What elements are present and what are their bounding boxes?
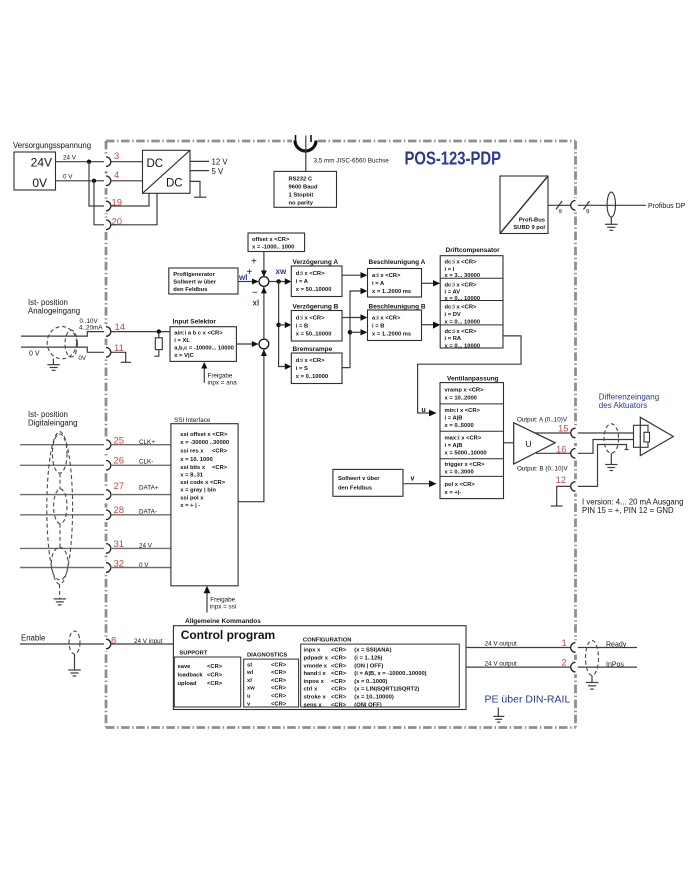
svg-text:12: 12 [556,475,567,486]
RS232 box [274,171,337,207]
svg-text:ain:i a b c x <CR>: ain:i a b c x <CR> [174,330,223,336]
svg-text:(ON | OFF): (ON | OFF) [354,663,383,669]
wire v to pol [403,483,430,485]
svg-text:Control program: Control program [181,628,276,642]
wire BeschA to Driftcompensator [422,282,434,284]
Profi-Bus SUBD box [500,176,548,234]
svg-text:<CR>: <CR> [331,656,347,662]
svg-text:5 V: 5 V [212,167,225,176]
ground analog shield [52,359,54,365]
svg-text:DC: DC [147,158,164,170]
svg-text:stroke x: stroke x [304,695,327,701]
summing node 2 [259,339,269,349]
wire output B to pin 16 [536,452,571,454]
svg-text:Ready: Ready [606,641,627,648]
svg-text:i = DV: i = DV [445,312,461,318]
wire xw out of summing [269,281,286,283]
svg-text:<CR>: <CR> [331,663,347,669]
pair ellipse clk [52,434,67,473]
svg-text:Analogeingang: Analogeingang [28,307,80,316]
svg-text:Bremsrampe: Bremsrampe [293,346,333,353]
enclosure dashed border left [105,141,108,728]
wire ventil out to amp U [504,442,514,444]
svg-text:0V: 0V [32,176,47,190]
svg-text:xl: xl [247,678,252,684]
wire pin14 to input selektor [111,331,171,333]
svg-text:POS-123-PDP: POS-123-PDP [405,148,502,169]
svg-text:x = -1000.. 1000: x = -1000.. 1000 [252,245,294,251]
svg-text:x = 8..31: x = 8..31 [180,472,203,478]
svg-text:x = 0..3000: x = 0..3000 [445,470,474,476]
pair ellipse 24v [51,547,68,580]
svg-text:inpx = ssi: inpx = ssi [210,604,236,611]
svg-text:3,5 mm JISC-6560 Buchse: 3,5 mm JISC-6560 Buchse [314,158,390,165]
svg-text:Output: B (0..10)V: Output: B (0..10)V [517,465,569,472]
ground digital shield [59,584,61,599]
right border connector arcs: profibus, 15,16,12,1,2 [571,201,576,672]
svg-text:24 V output: 24 V output [485,660,517,667]
svg-text:Sollwert w über: Sollwert w über [173,280,217,286]
svg-text:x = 1..2000 ms: x = 1..2000 ms [372,332,411,338]
svg-text:Beschleunigung A: Beschleunigung A [369,259,426,266]
svg-text:xw: xw [247,686,255,692]
svg-text:<CR>: <CR> [271,686,287,692]
svg-text:<CR>: <CR> [271,662,287,668]
wire BeschB to Driftcompensator [422,324,434,326]
svg-text:Allgemeine Kommandos: Allgemeine Kommandos [185,618,261,625]
svg-text:<CR>: <CR> [212,465,228,471]
wire bremsrampe up branch [342,291,361,368]
svg-text:x = 0..10000: x = 0..10000 [296,374,328,380]
svg-text:2: 2 [562,658,567,669]
cable shield ellipse actuator [604,424,619,453]
svg-text:hand:i x: hand:i x [304,671,327,677]
svg-text:19: 19 [112,198,123,209]
svg-text:vramp x <CR>: vramp x <CR> [445,388,485,394]
svg-text:Sollwert v über: Sollwert v über [338,476,380,482]
svg-text:dc:i x <CR>: dc:i x <CR> [445,305,478,311]
svg-text:pol x <CR>: pol x <CR> [445,482,476,488]
wire profibus to border [548,204,571,206]
svg-text:a,b,c = -10000... 10000: a,b,c = -10000... 10000 [174,345,234,351]
wire VerzA to BeschA [342,274,361,276]
wire profibus external [578,204,646,206]
svg-text:12 V: 12 V [212,158,229,167]
svg-text:Freigabe: Freigabe [208,373,233,380]
svg-text:DC: DC [166,178,183,190]
svg-text:(x = 10..10000): (x = 10..10000) [354,695,394,701]
wire VerzB to BeschB [342,317,361,319]
svg-text:i = A|B: i = A|B [445,443,463,449]
svg-text:4..20mA: 4..20mA [79,324,103,331]
svg-text:DIAGNOSTICS: DIAGNOSTICS [247,653,287,659]
external wires ready/inpos [578,647,637,649]
svg-text:9: 9 [559,209,563,216]
svg-text:a:i x <CR>: a:i x <CR> [372,316,401,322]
wire pin11 stub to 0V [111,352,126,362]
svg-text:<CR>: <CR> [331,695,347,701]
svg-text:a:i x <CR>: a:i x <CR> [372,273,401,279]
svg-text:PIN 15 = +, PIN 12 = GND: PIN 15 = +, PIN 12 = GND [582,506,674,515]
wire 24V to pin 3 [56,161,105,163]
svg-text:x = 3... 30000: x = 3... 30000 [445,273,481,279]
svg-text:(ON| OFF): (ON| OFF) [354,702,381,708]
svg-text:i = RA: i = RA [445,336,462,342]
svg-text:16: 16 [556,444,567,455]
svg-text:trigger x <CR>: trigger x <CR> [445,462,486,468]
svg-text:x = 10..2000: x = 10..2000 [445,396,477,402]
svg-text:ssi pol x: ssi pol x [180,495,204,501]
svg-text:<CR>: <CR> [207,673,223,679]
shunt resistor [158,334,160,338]
svg-text:15: 15 [558,424,569,435]
svg-text:0 V: 0 V [29,351,40,358]
svg-text:loadback: loadback [178,673,204,679]
svg-text:<CR>: <CR> [207,681,223,687]
Freigabe ssi arrow [206,590,208,613]
svg-text:Enable: Enable [21,634,45,643]
svg-text:InPos: InPos [606,661,624,668]
svg-text:ctrl x: ctrl x [304,687,319,693]
wire pin8 to control program [111,643,174,645]
svg-text:0 V: 0 V [63,174,73,181]
svg-text:<CR>: <CR> [207,664,223,670]
svg-text:24 V: 24 V [63,155,77,162]
svg-text:i = B: i = B [372,324,384,330]
svg-text:24V: 24V [31,156,52,170]
svg-text:x = V|C: x = V|C [174,353,194,359]
wire pin12 external shield [578,445,627,487]
svg-text:<CR>: <CR> [331,679,347,685]
wire pin15 external [578,432,634,434]
svg-text:x = 50..10000: x = 50..10000 [296,287,332,293]
svg-text:Profilgenerator: Profilgenerator [173,272,215,278]
cable shield ellipse enable [69,631,80,654]
wire selektor to summing 2 [236,343,252,345]
svg-text:ssi code x <CR>: ssi code x <CR> [180,480,225,486]
wire xl vertical into summing 1 [263,287,265,339]
svg-text:U: U [526,439,532,449]
svg-text:+: + [247,267,253,278]
wire ssi up into summing 2 [238,350,264,502]
pair ellipse data [54,489,67,524]
wire 12V out [190,160,209,162]
svg-text:x = 0..5000: x = 0..5000 [445,423,474,429]
wire enable [20,643,104,645]
svg-text:x = -30000 ..30000: x = -30000 ..30000 [180,440,229,446]
wire 0V down to pin 20 [94,181,104,225]
svg-text:CONFIGURATION: CONFIGURATION [303,638,352,644]
wire pin19 to DCDC bottom [111,193,150,206]
svg-text:Digitaleingang: Digitaleingang [28,419,77,428]
svg-text:0V: 0V [78,355,87,362]
ground profibus shield [610,217,612,224]
ground at DCDC [190,181,200,197]
svg-text:ssi res x: ssi res x [180,449,204,455]
svg-text:<CR>: <CR> [271,678,287,684]
svg-text:upload: upload [178,681,197,687]
svg-text:24 V output: 24 V output [485,641,517,648]
svg-text:dc:i x <CR>: dc:i x <CR> [445,260,478,266]
svg-text:inpos x: inpos x [304,679,325,685]
svg-text:Versorgungsspannung: Versorgungsspannung [13,141,91,150]
svg-text:x = 0... 10000: x = 0... 10000 [445,320,481,326]
wire 24V output 2 [466,666,571,668]
wires pins to SSI box [111,444,171,446]
svg-text:min:i x <CR>: min:i x <CR> [445,408,481,414]
svg-text:Output: A (0..10)V: Output: A (0..10)V [517,416,568,423]
border gaps for connectors [104,138,579,674]
svg-text:i = S: i = S [296,366,308,372]
svg-text:d:i x <CR>: d:i x <CR> [296,271,325,277]
actuator amplifier [634,425,649,447]
svg-text:dc:i x <CR>: dc:i x <CR> [445,329,478,335]
svg-text:(i = 1..126): (i = 1..126) [354,656,382,662]
svg-text:i = A: i = A [296,279,309,285]
svg-text:Ist- position: Ist- position [28,410,68,419]
Freigabe ana arrow [203,366,205,383]
wire 5V out [190,170,209,172]
svg-text:den Feldbus: den Feldbus [173,287,207,293]
svg-text:sens x: sens x [304,702,323,708]
svg-text:27: 27 [114,481,125,492]
svg-text:i = AV: i = AV [445,289,461,295]
svg-text:DATA+: DATA+ [139,485,159,492]
svg-text:u: u [422,407,426,414]
node 24V junction [87,160,91,164]
svg-text:PE über DIN-RAIL: PE über DIN-RAIL [485,694,571,706]
svg-text:x = + | -: x = + | - [180,503,200,509]
svg-text:(x = LIN|SQRT1|SQRT2): (x = LIN|SQRT1|SQRT2) [354,687,419,693]
svg-text:max:i x <CR>: max:i x <CR> [445,436,482,442]
wire driftcomp to ventilanpassung [418,336,521,413]
wires digital left [20,444,104,446]
svg-text:ssi bits x: ssi bits x [180,465,206,471]
wire pin4 to DCDC [111,180,143,182]
wire analog - [21,347,104,352]
svg-text:inpx = ana: inpx = ana [208,380,238,387]
svg-text:x = 10. 1000: x = 10. 1000 [180,457,212,463]
svg-text:i = XL: i = XL [174,338,190,344]
svg-text:d:i x <CR>: d:i x <CR> [296,358,325,364]
svg-text:x = 50..10000: x = 50..10000 [296,332,332,338]
svg-text:SUBD 9 pol: SUBD 9 pol [513,225,545,231]
svg-text:vmode x: vmode x [304,663,328,669]
svg-text:RS232 C: RS232 C [289,177,313,183]
svg-text:offset x <CR>: offset x <CR> [252,237,290,243]
svg-text:−: − [252,288,258,299]
svg-text:4: 4 [114,170,119,181]
wire xw down to Verz B and Bremsrampe [279,282,286,367]
svg-text:SUPPORT: SUPPORT [179,651,207,657]
op-amp U output stage [514,423,556,464]
supply box 24V/0V [14,152,56,190]
svg-text:Verzögerung B: Verzögerung B [293,304,339,311]
node 0V junction [92,179,96,183]
svg-text:x = 0... 10000: x = 0... 10000 [445,343,481,349]
svg-text:x = 0... 10000: x = 0... 10000 [445,296,481,302]
cable outer ellipse digital [47,432,73,585]
svg-text:9600 Baud: 9600 Baud [289,185,318,191]
svg-text:<CR>: <CR> [271,694,287,700]
svg-text:x = 5000..10000: x = 5000..10000 [445,450,487,456]
wire profilgen to summing [238,281,253,283]
svg-text:inpx x: inpx x [304,648,322,654]
svg-text:+: + [251,257,257,268]
svg-text:Driftcompensator: Driftcompensator [446,247,501,254]
svg-text:(x = 0..1000): (x = 0..1000) [354,679,387,685]
svg-text:pdpadr x: pdpadr x [304,656,329,662]
svg-text:8: 8 [111,636,116,647]
svg-text:<CR>: <CR> [331,648,347,654]
wire pin20 to DCDC bottom [111,193,158,225]
cable shield ellipses analog [47,327,76,359]
svg-text:Profi-Bus: Profi-Bus [519,218,545,224]
svg-text:u: u [247,694,251,700]
svg-text:i = B: i = B [296,324,308,330]
svg-text:x = 1..2000 ms: x = 1..2000 ms [372,289,411,295]
offset box [248,233,305,252]
DC/DC converter [143,150,191,193]
svg-text:save: save [178,664,192,670]
svg-text:dc:i x <CR>: dc:i x <CR> [445,282,478,288]
svg-text:i = A|B: i = A|B [445,416,463,422]
svg-text:ssi offset x <CR>: ssi offset x <CR> [180,432,228,438]
svg-text:i = A: i = A [372,281,385,287]
svg-text:x = gray | bin: x = gray | bin [180,488,216,494]
svg-text:wl: wl [246,670,254,676]
summing node 1 [259,277,269,287]
wire 24V output 1 [466,647,571,649]
wire jack to RS232 box [305,136,307,172]
svg-text:1: 1 [562,638,567,649]
svg-text:9: 9 [586,209,590,216]
svg-text:d:i x <CR>: d:i x <CR> [296,316,325,322]
svg-text:SSI Interface: SSI Interface [174,417,211,424]
svg-text:<CR>: <CR> [331,687,347,693]
cable shield ellipse profibus [607,192,615,217]
svg-text:Verzögerung A: Verzögerung A [293,259,339,266]
svg-text:Freigabe: Freigabe [210,597,235,604]
wire 0V to pin 4 [56,180,105,182]
svg-text:st: st [247,662,252,668]
svg-text:Ventilanpassung: Ventilanpassung [447,376,499,383]
Sollwert v box [333,469,403,496]
Profilgenerator box [169,268,238,294]
wire 24V down to pin 19 [89,162,104,206]
wire pin16 external [578,440,634,454]
svg-text:no parity: no parity [289,201,314,207]
svg-text:3: 3 [114,151,119,162]
svg-text:1 Stopbit: 1 Stopbit [289,193,314,199]
svg-text:<CR>: <CR> [331,702,347,708]
svg-text:20: 20 [112,216,123,227]
svg-text:<CR>: <CR> [212,449,228,455]
svg-text:xw: xw [276,267,287,276]
svg-text:des Aktuators: des Aktuators [599,401,647,410]
svg-text:Profibus DP: Profibus DP [648,203,686,210]
svg-text:xl: xl [253,299,260,308]
ground PE [497,708,499,717]
svg-text:x = +|-: x = +|- [445,490,462,496]
svg-text:i = I: i = I [445,267,455,273]
ground enable shield [74,654,76,670]
enclosure dashed border top [106,140,576,143]
svg-text:(x = SSI|ANA): (x = SSI|ANA) [354,648,391,654]
cable shield ellipse outputs [586,641,599,676]
wire offset to summing node [263,252,265,272]
svg-text:Input Selektor: Input Selektor [173,319,217,326]
svg-text:(i = A|B, x = -10000..10000): (i = A|B, x = -10000..10000) [354,671,426,677]
wire output A to pin 15 [534,432,571,434]
left border connector arcs pins 3,4,19,20,14,11,25,26,27,28,31,32,8 [106,157,111,649]
svg-text:<CR>: <CR> [331,671,347,677]
svg-text:v: v [411,476,415,483]
wire pin3 to DCDC [111,161,143,163]
enclosure dashed border bottom [106,726,576,729]
svg-text:<CR>: <CR> [271,701,287,707]
svg-text:den Feldbus: den Feldbus [338,486,372,492]
ground actuator shield [610,453,612,464]
svg-text:<CR>: <CR> [271,670,287,676]
enclosure dashed border right [574,141,577,728]
wire analog + [21,332,104,337]
